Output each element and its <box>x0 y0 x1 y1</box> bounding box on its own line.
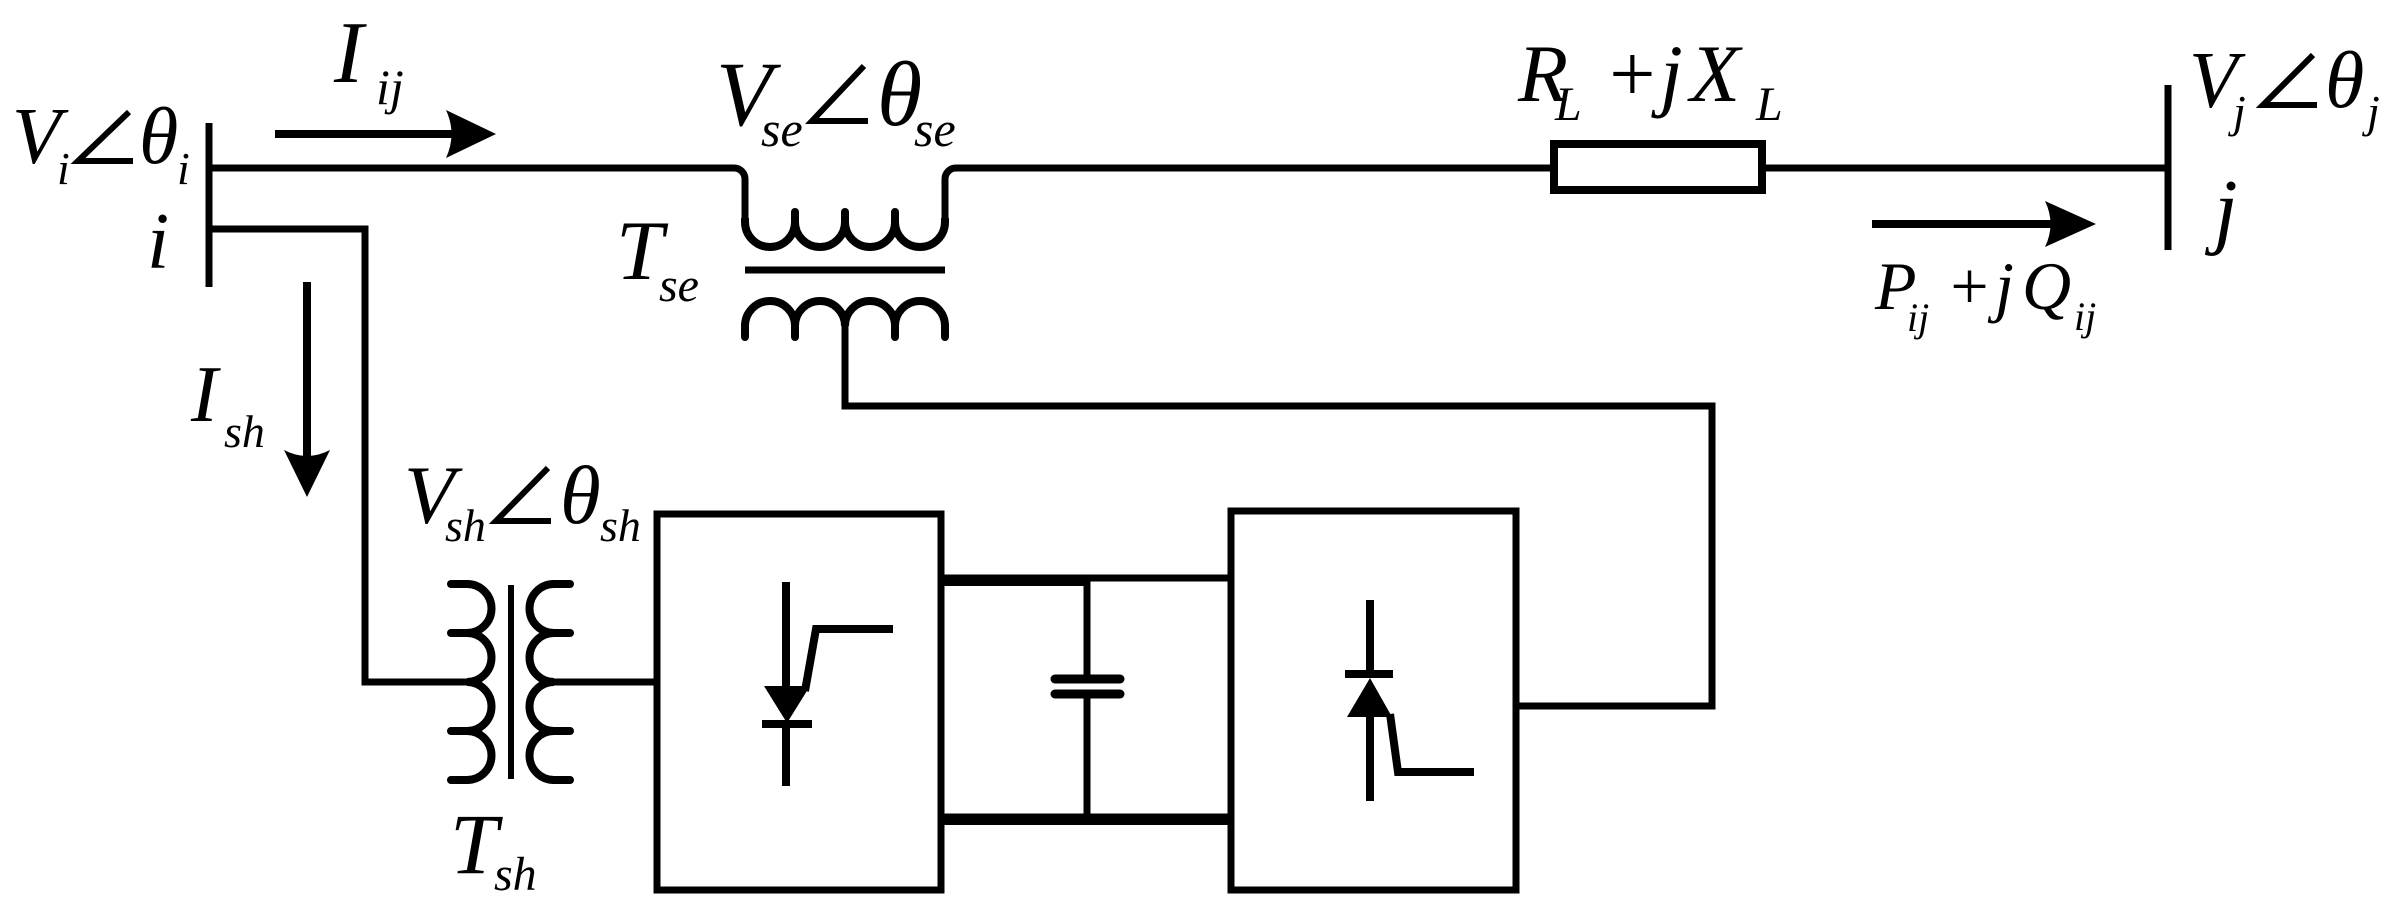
transformer Tsh <box>451 584 570 780</box>
angle symbol of Vj <box>2263 55 2317 105</box>
transformer Tse <box>745 212 945 337</box>
svg-text:X: X <box>1687 28 1743 119</box>
Tse primary cusp ticks <box>795 212 895 222</box>
svg-text:sh: sh <box>600 500 641 551</box>
label RL jXL <box>1517 28 1783 131</box>
label Ish <box>190 351 265 457</box>
svg-text:sh: sh <box>224 406 265 457</box>
svg-text:I: I <box>333 5 367 102</box>
bus j <box>2165 85 2172 250</box>
svg-text:+: + <box>1946 248 1992 324</box>
arrow Iij <box>275 110 496 158</box>
svg-text:se: se <box>914 101 956 157</box>
wire DC link top <box>941 575 1231 582</box>
wire DC link top duplicate stroke <box>944 580 1087 586</box>
label Vse <box>716 43 956 157</box>
svg-text:L: L <box>1755 78 1783 131</box>
node Vi label <box>12 93 190 194</box>
angle symbol of Vi <box>78 112 133 161</box>
Tsh left winding ticks <box>451 584 467 780</box>
svg-text:θ: θ <box>139 93 178 181</box>
angle symbol of Vse <box>812 66 868 121</box>
arrow Pij <box>1872 201 2096 247</box>
Tse secondary winding <box>745 301 945 326</box>
label Pij+jQij <box>1874 248 2096 340</box>
svg-text:i: i <box>177 143 190 194</box>
label Tse <box>616 204 699 312</box>
Tsh core <box>508 585 514 779</box>
Tse primary winding <box>745 218 945 247</box>
svg-text:i: i <box>57 143 70 194</box>
svg-text:θ: θ <box>560 449 601 541</box>
wire shunt tap from bus i down to Tsh <box>209 229 471 682</box>
svg-text:se: se <box>659 259 699 312</box>
label Vsh <box>404 449 641 551</box>
wire Tsh to VSC1 <box>553 679 657 686</box>
wire Tse to resistor <box>945 168 1554 222</box>
label Tsh <box>450 796 537 901</box>
thyristor VSC2 <box>1345 600 1474 801</box>
svg-text:i: i <box>147 198 169 286</box>
Tsh left winding <box>467 584 492 780</box>
wire Tse secondary to VSC2 <box>845 318 1712 706</box>
svg-text:I: I <box>190 351 221 439</box>
svg-text:Q: Q <box>2022 248 2071 324</box>
wire resistor to bus j <box>1762 165 2165 172</box>
svg-text:sh: sh <box>445 500 486 551</box>
svg-text:sh: sh <box>494 848 537 901</box>
bus i <box>206 123 213 287</box>
svg-text:ij: ij <box>376 59 404 115</box>
label Vj <box>2189 37 2380 137</box>
wire DC link bottom duplicate stroke <box>944 819 1233 825</box>
resistor RL+jXL <box>1554 144 1762 190</box>
svg-text:j: j <box>2362 86 2380 137</box>
arrow Ish <box>284 282 330 497</box>
wire bus i to Tse <box>209 168 745 222</box>
svg-text:ij: ij <box>1907 295 1929 340</box>
capacitor DC link <box>1055 578 1120 820</box>
svg-text:se: se <box>761 101 803 157</box>
Tse core <box>745 267 945 274</box>
converter VSC1 box <box>657 514 941 890</box>
svg-text:+: + <box>1604 28 1659 119</box>
angle symbol of Vsh <box>496 468 551 521</box>
svg-text:L: L <box>1554 78 1582 131</box>
Tsh right winding ticks <box>554 584 570 780</box>
svg-text:θ: θ <box>2325 37 2364 125</box>
thyristor VSC1 <box>762 582 893 786</box>
wire DC link bottom <box>941 814 1231 821</box>
svg-text:j: j <box>2204 163 2238 257</box>
Tsh right winding <box>530 584 555 780</box>
svg-text:ij: ij <box>2074 294 2096 339</box>
Tse secondary end hooks <box>745 326 945 337</box>
converter VSC2 box <box>1231 511 1516 890</box>
label Iij <box>333 5 404 115</box>
